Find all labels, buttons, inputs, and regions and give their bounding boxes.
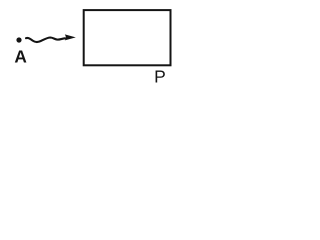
arrowhead xyxy=(65,34,76,40)
node A dot xyxy=(16,37,21,42)
svg-text:A: A xyxy=(14,46,27,66)
wire: wavy arrow shaft xyxy=(26,38,65,43)
plate P rectangle xyxy=(84,10,171,65)
svg-text:P: P xyxy=(154,67,166,87)
